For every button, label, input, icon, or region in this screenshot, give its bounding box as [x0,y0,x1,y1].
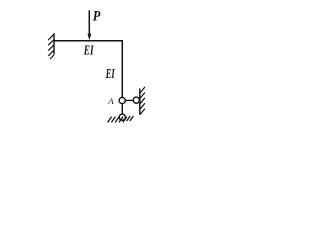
wire: vertical member EI [121,40,123,97]
wire: vertical link below A [121,101,123,115]
load P arrow [88,10,90,34]
roller circle (bottom link) [119,114,125,120]
roller circle (right link) [133,97,139,103]
fixed support wall (left) [53,33,55,54]
ground hatching (bottom roller) [108,116,134,122]
hinge circle at A [119,97,125,103]
fixed support hatching [48,34,54,59]
wire: horizontal beam EI [53,40,123,42]
svg-text:EI: EI [105,67,115,82]
svg-text:EI: EI [83,44,94,59]
wire: horizontal link at A [122,99,140,101]
right wall hatching [140,87,145,115]
svg-text:P: P [93,8,101,24]
svg-text:A: A [107,96,114,106]
right support wall [139,88,141,114]
